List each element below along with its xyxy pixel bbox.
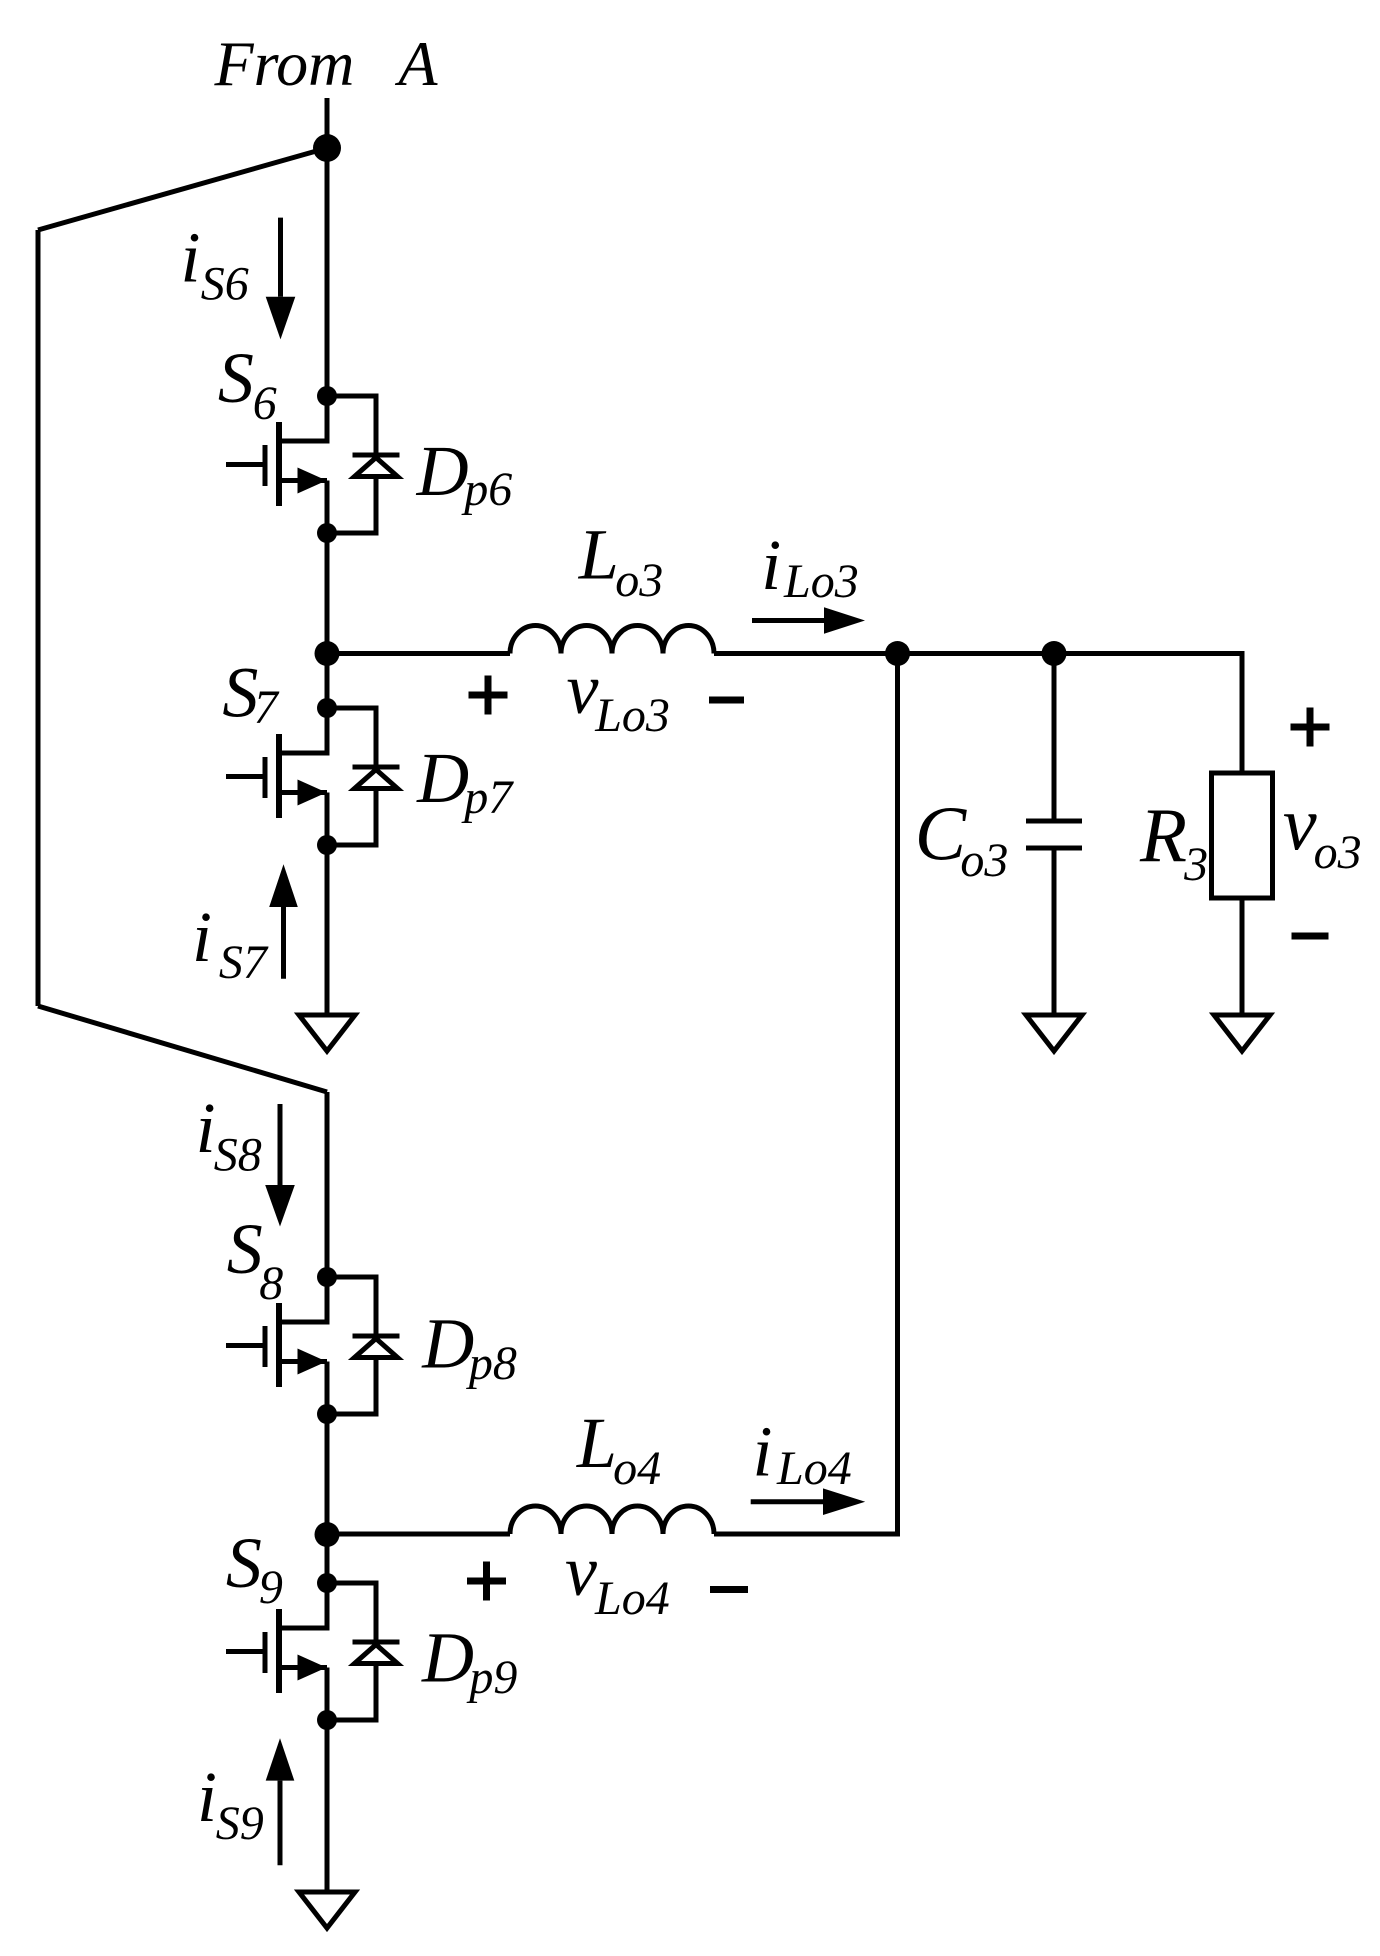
svg-text:D: D — [416, 431, 469, 511]
svg-text:L: L — [578, 514, 619, 594]
svg-text:S: S — [226, 1523, 262, 1603]
svg-text:o4: o4 — [613, 1442, 661, 1495]
svg-text:p7: p7 — [461, 771, 514, 824]
svg-text:D: D — [416, 738, 469, 818]
node D (Co3 junction) — [1042, 641, 1067, 666]
node B (phase junction to Lo3) — [315, 641, 340, 666]
svg-text:S8: S8 — [214, 1129, 262, 1182]
wire: S8 source to S9 drain (through node E) — [325, 1362, 330, 1629]
current arrow iLo3 — [752, 607, 865, 634]
wire: node B to Lo3 — [327, 651, 510, 656]
wire: Lo3 to output node C — [714, 651, 898, 656]
inductor Lo3 — [510, 626, 714, 654]
svg-text:v: v — [567, 649, 599, 729]
transistor S9 — [226, 1573, 337, 1730]
svg-text:8: 8 — [259, 1257, 283, 1310]
svg-text:i: i — [197, 1757, 217, 1837]
svg-text:v: v — [1283, 783, 1317, 867]
svg-text:Lo4: Lo4 — [776, 1442, 852, 1495]
node E (phase junction to Lo4) — [315, 1522, 340, 1547]
svg-text:i: i — [192, 897, 212, 977]
svg-text:From: From — [214, 28, 355, 99]
transistor S8 — [226, 1267, 337, 1424]
node C (Lo3/Lo4 output junction) — [885, 641, 910, 666]
polarity - (vLo4) — [710, 1586, 748, 1593]
current arrow iS7 — [269, 864, 298, 978]
svg-text:9: 9 — [259, 1561, 283, 1614]
current arrow iS6 — [266, 218, 296, 340]
wire: node E to Lo4 — [327, 1532, 510, 1537]
node A junction — [313, 134, 341, 162]
svg-text:o3: o3 — [1314, 826, 1362, 879]
svg-text:D: D — [421, 1618, 474, 1698]
wire: left bus to S8 branch (diagonal) — [38, 1006, 327, 1092]
svg-text:A: A — [394, 28, 438, 99]
svg-text:S6: S6 — [201, 258, 249, 311]
svg-text:p9: p9 — [466, 1651, 517, 1704]
svg-text:S: S — [218, 338, 254, 418]
transistor S6 — [226, 386, 337, 543]
svg-text:i: i — [196, 1088, 216, 1168]
wire: node A to left bus (diagonal) — [38, 148, 327, 230]
current arrow iS8 — [265, 1104, 295, 1227]
ground (below S7) — [299, 1015, 355, 1051]
body diode Dp9 — [327, 1583, 400, 1720]
svg-text:D: D — [421, 1304, 474, 1384]
wire: S7 source to ground — [325, 793, 330, 1016]
svg-text:6: 6 — [253, 377, 277, 430]
polarity + (vLo4) — [467, 1562, 506, 1601]
ground (below R3) — [1214, 1015, 1270, 1051]
svg-text:i: i — [181, 218, 201, 298]
ground (below Co3) — [1026, 1015, 1082, 1051]
wire: node D to R3 — [1054, 654, 1242, 774]
ground (below S9) — [299, 1892, 355, 1928]
wire from A (top feed) — [325, 98, 330, 148]
wire: node A to S6 drain — [325, 148, 330, 441]
svg-text:S9: S9 — [216, 1797, 264, 1850]
body diode Dp8 — [327, 1277, 400, 1414]
wire: R3 to ground — [1240, 898, 1245, 1015]
capacitor Co3 — [1026, 654, 1082, 1016]
svg-text:v: v — [565, 1531, 597, 1611]
svg-text:L: L — [576, 1403, 617, 1483]
svg-text:S: S — [227, 1209, 263, 1289]
svg-text:Lo3: Lo3 — [594, 689, 670, 742]
wire: S9 source to ground — [325, 1668, 330, 1893]
svg-text:i: i — [761, 525, 781, 605]
transistor S7 — [226, 698, 337, 855]
wire: Lo4 to node C riser — [714, 654, 898, 1535]
wire: S8 branch top to S8 drain — [325, 1092, 330, 1322]
svg-text:3: 3 — [1183, 838, 1208, 891]
svg-text:i: i — [753, 1412, 773, 1492]
polarity + (vLo3) — [469, 676, 508, 715]
current arrow iLo4 — [751, 1488, 866, 1515]
polarity - (vLo3) — [709, 697, 744, 704]
svg-text:S7: S7 — [219, 936, 269, 989]
svg-text:o3: o3 — [615, 554, 663, 607]
svg-text:7: 7 — [254, 681, 280, 734]
body diode Dp6 — [327, 396, 400, 533]
svg-text:p6: p6 — [461, 463, 512, 516]
body diode Dp7 — [327, 708, 400, 845]
svg-text:o3: o3 — [960, 834, 1008, 887]
svg-text:R: R — [1139, 792, 1187, 878]
polarity - (vo3) — [1292, 933, 1329, 940]
current arrow iS9 — [266, 1738, 295, 1865]
wire: S6 source to S7 drain (through node B) — [325, 481, 330, 754]
polarity + (vo3) — [1291, 708, 1330, 747]
resistor R3 — [1212, 773, 1273, 898]
wire: node C to node D — [898, 651, 1055, 656]
svg-text:Lo4: Lo4 — [594, 1572, 670, 1625]
svg-text:p8: p8 — [466, 1337, 517, 1390]
inductor Lo4 — [510, 1506, 714, 1534]
wire: left bus vertical — [36, 230, 41, 1006]
svg-text:Lo3: Lo3 — [783, 555, 859, 608]
